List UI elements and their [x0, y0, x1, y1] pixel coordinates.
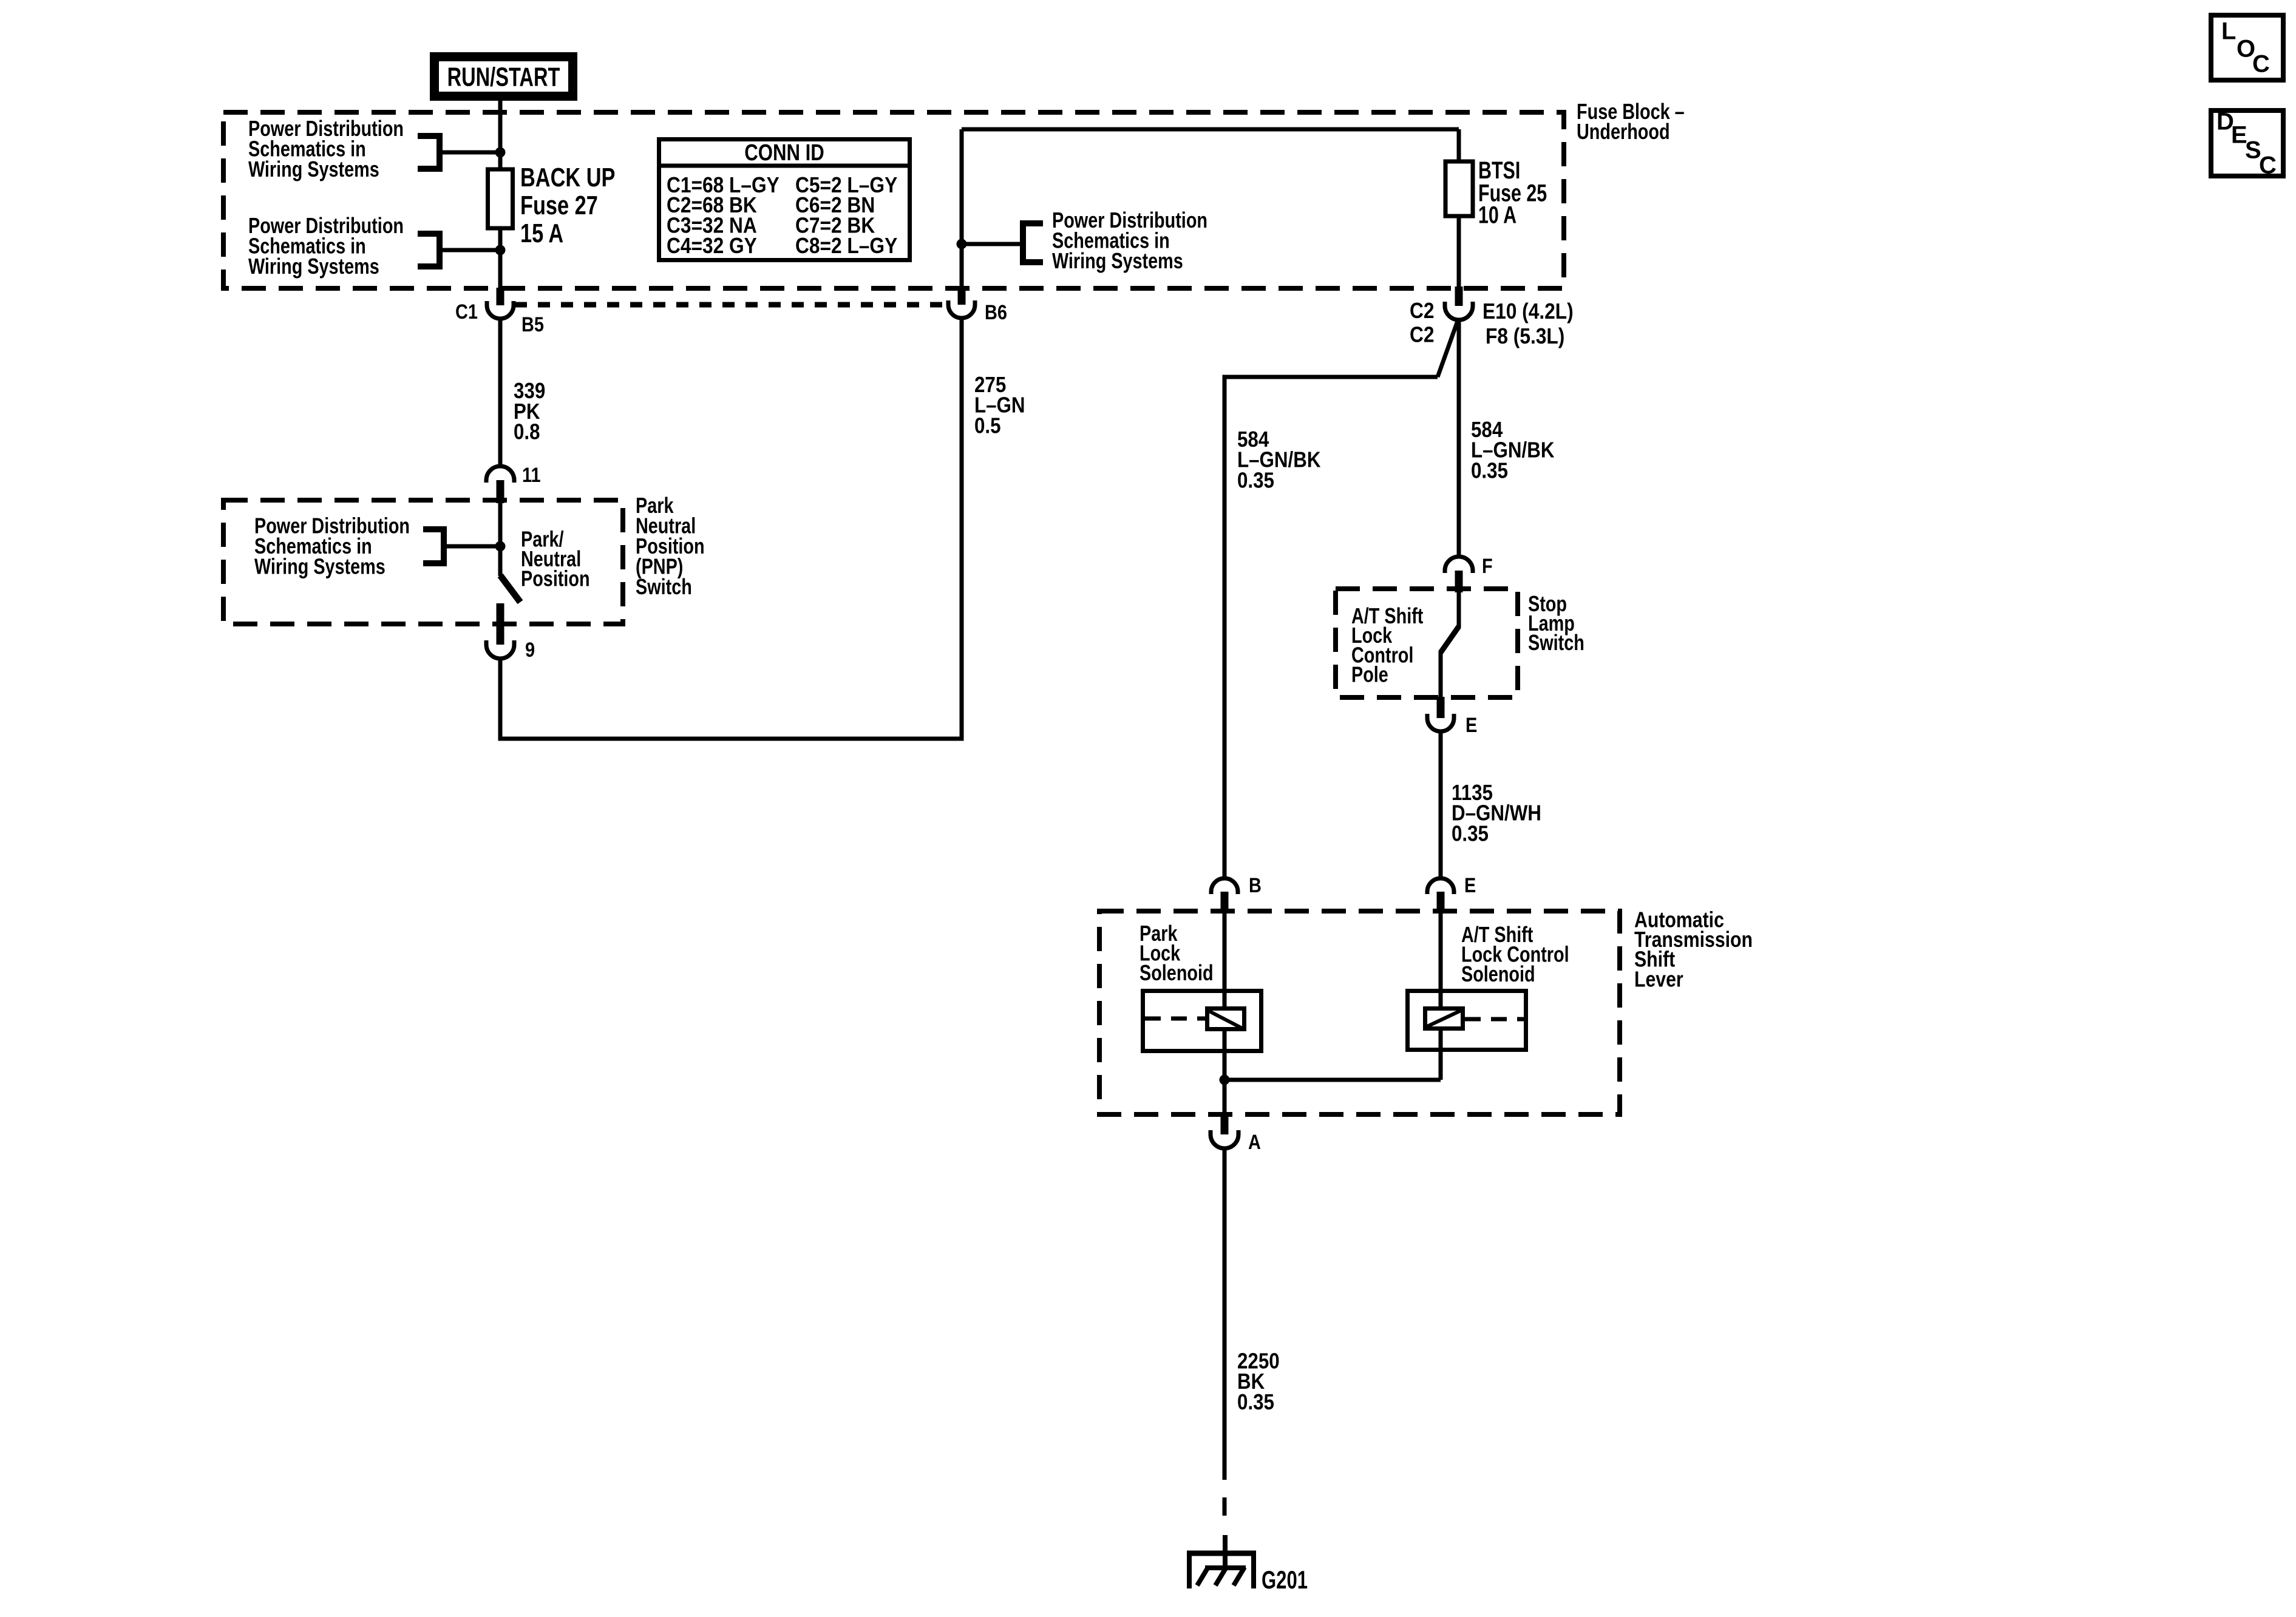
PNP switch dashed boundary — [223, 500, 623, 624]
svg-text:0.35: 0.35 — [1237, 467, 1274, 492]
junction node at bracket 1 — [495, 147, 506, 158]
automatic transmission shift lever dashed boundary — [1099, 911, 1620, 1114]
pin label C1 — [455, 300, 478, 324]
pin label B5 — [521, 313, 544, 336]
wire label 584 L-GN/BK 0.35 right — [1471, 417, 1555, 483]
wire label 2250 BK 0.35 — [1237, 1348, 1280, 1414]
bracket power distribution 2 — [418, 234, 440, 266]
connector C2 pin E10/F8 — [1445, 286, 1473, 320]
stop lamp switch blade — [1441, 592, 1459, 697]
pin label F — [1482, 555, 1493, 578]
PNP switch blade — [500, 575, 520, 602]
pin label F8 (5.3L) — [1486, 324, 1564, 348]
wire bracket PNP to node — [444, 544, 498, 549]
label power distribution ref 3 — [1052, 208, 1207, 273]
label fuse block underhood — [1577, 99, 1685, 144]
svg-text:9: 9 — [525, 639, 535, 662]
wire label 339 PK 0.8 — [514, 378, 545, 444]
wire B to park lock solenoid — [1223, 914, 1227, 1006]
label automatic transmission shift lever — [1634, 907, 1753, 992]
svg-text:L: L — [2221, 18, 2236, 45]
label park/neutral position contacts — [521, 527, 590, 591]
svg-text:C2: C2 — [1410, 322, 1435, 347]
pin label E shift lever — [1464, 874, 1476, 897]
CONN ID table rows — [667, 172, 897, 258]
wire fuse block top horizontal — [962, 127, 1459, 132]
DESC letters — [2216, 109, 2277, 179]
wire ground lead — [1223, 1535, 1228, 1567]
DESC box — [2211, 110, 2283, 176]
svg-text:C: C — [2259, 152, 2277, 179]
svg-text:Wiring Systems: Wiring Systems — [248, 254, 379, 279]
park lock solenoid box — [1143, 991, 1262, 1051]
LOC box — [2211, 15, 2283, 80]
svg-text:Lever: Lever — [1634, 966, 1683, 991]
svg-text:0.35: 0.35 — [1452, 821, 1489, 846]
wire diagonal C2 to 584 branch — [1438, 319, 1458, 377]
park lock solenoid coil — [1207, 1009, 1245, 1029]
stop lamp switch dashed boundary (A/T Shift Lock Control Pole) — [1336, 589, 1518, 697]
label power distribution ref 1 — [248, 116, 404, 181]
svg-text:Solenoid: Solenoid — [1461, 961, 1535, 986]
wire to BTSI fuse — [1457, 129, 1461, 161]
connector pin 9 of PNP switch — [486, 603, 514, 659]
label stop lamp switch — [1528, 591, 1584, 655]
bracket power distribution 3 — [1023, 223, 1043, 262]
connector pin F stop lamp switch — [1445, 557, 1473, 592]
A/T shift lock control solenoid coil — [1425, 1009, 1463, 1029]
wire node to bracket 3 — [964, 242, 1023, 246]
connector C1/B6 dotted line — [515, 302, 943, 308]
connector pin 11 of PNP switch — [486, 466, 514, 503]
svg-text:11: 11 — [522, 464, 541, 487]
junction node at bracket 3 — [957, 239, 967, 249]
label BTSI Fuse 25 10 A — [1478, 157, 1547, 229]
fuse F25 BTSI 10A — [1445, 161, 1473, 216]
junction node PNP — [495, 541, 506, 552]
connector pin E stop lamp switch — [1427, 697, 1454, 731]
label PNP switch name — [636, 493, 705, 599]
svg-text:E10 (4.2L): E10 (4.2L) — [1483, 299, 1574, 324]
A/T shift lock control solenoid box — [1408, 991, 1526, 1050]
bracket power distribution 1 — [418, 136, 440, 169]
svg-text:RUN/START: RUN/START — [447, 62, 560, 92]
wire RUN/START to fuse 27 — [498, 101, 503, 171]
svg-text:B: B — [1249, 874, 1262, 897]
svg-text:0.35: 0.35 — [1237, 1389, 1274, 1414]
pin label A — [1248, 1131, 1261, 1154]
svg-text:Underhood: Underhood — [1577, 119, 1670, 144]
svg-text:0.8: 0.8 — [514, 419, 540, 444]
label power distribution ref 2 — [248, 213, 404, 279]
pin label E stop lamp switch — [1466, 714, 1477, 737]
PNP switch wire upper — [498, 503, 503, 576]
svg-text:0.5: 0.5 — [974, 413, 1001, 438]
svg-text:C2: C2 — [1410, 298, 1435, 323]
wire bracket 1 to node — [443, 151, 498, 155]
wire label 275 L-GN 0.5 — [974, 372, 1025, 438]
fuse F27 BACK UP 15A — [488, 169, 513, 228]
wire 2250 BK — [1223, 1149, 1227, 1480]
svg-text:0.35: 0.35 — [1471, 458, 1508, 483]
wire label 584 L-GN/BK 0.35 left — [1237, 427, 1321, 493]
svg-text:F8 (5.3L): F8 (5.3L) — [1486, 324, 1564, 348]
wire bracket 2 to node — [443, 248, 498, 253]
svg-text:CONN ID: CONN ID — [744, 140, 824, 166]
connector pin E shift lever — [1427, 878, 1454, 914]
svg-text:10 A: 10 A — [1478, 202, 1517, 229]
pin label C2 C2 — [1410, 298, 1435, 347]
svg-text:B5: B5 — [521, 313, 544, 336]
svg-text:C4=32 GY: C4=32 GY — [667, 233, 757, 258]
svg-text:Wiring Systems: Wiring Systems — [248, 157, 379, 181]
svg-text:C1: C1 — [455, 300, 478, 324]
ground G201 — [1187, 1551, 1256, 1588]
label BACK UP Fuse 27 15 A — [520, 163, 615, 248]
wire 9 to B6 return loop — [500, 317, 962, 739]
svg-text:Wiring Systems: Wiring Systems — [254, 554, 385, 579]
connector pin A shift lever — [1211, 1114, 1238, 1148]
wire 584 right branch — [1457, 319, 1461, 557]
pin label 11 — [522, 464, 541, 487]
wire dash to ground — [1223, 1497, 1227, 1516]
svg-text:G201: G201 — [1262, 1565, 1308, 1594]
fuse block dashed boundary (Fuse Block - Underhood) — [223, 112, 1564, 288]
connector C1 pin B5 — [487, 288, 514, 319]
svg-text:Switch: Switch — [1528, 630, 1584, 655]
label power distribution ref PNP — [254, 514, 410, 579]
svg-text:E: E — [1466, 714, 1477, 737]
wire B6 vertical inside fuse block — [960, 129, 964, 288]
svg-text:Fuse 27: Fuse 27 — [520, 191, 598, 220]
label park lock solenoid — [1140, 921, 1214, 985]
pin label 9 — [525, 639, 535, 662]
A/T solenoid dashed lead — [1465, 1017, 1524, 1022]
wire park solenoid down — [1223, 1031, 1227, 1114]
wire BTSI fuse to connector C2 — [1457, 216, 1461, 286]
wire solenoid join horizontal — [1224, 1078, 1441, 1082]
svg-text:A: A — [1248, 1131, 1261, 1154]
wire 1135 D-GN/WH — [1439, 731, 1443, 878]
bracket power distribution PNP — [423, 529, 444, 563]
pin label E10 (4.2L) — [1483, 299, 1574, 324]
label RUN/START — [447, 62, 560, 92]
connector B6 — [948, 288, 975, 318]
svg-text:B6: B6 — [985, 301, 1007, 324]
label A/T shift lock control pole — [1351, 603, 1423, 687]
pin label B6 — [985, 301, 1007, 324]
park lock solenoid dashed lead — [1145, 1017, 1205, 1021]
junction node at bracket 2 — [495, 245, 506, 256]
svg-text:15 A: 15 A — [520, 219, 563, 248]
LOC letters — [2221, 18, 2270, 78]
wire A/T solenoid down — [1439, 1031, 1443, 1080]
svg-text:C: C — [2252, 51, 2270, 78]
CONN ID table — [657, 140, 912, 260]
connector pin B shift lever — [1211, 878, 1238, 914]
svg-text:C8=2 L–GY: C8=2 L–GY — [795, 233, 897, 258]
label A/T shift lock control solenoid — [1461, 922, 1569, 986]
wire E to A/T shift lock solenoid — [1439, 914, 1443, 1006]
switch-position label RUN/START — [435, 57, 573, 97]
svg-text:Solenoid: Solenoid — [1140, 960, 1214, 985]
wire 339 PK — [498, 318, 503, 467]
svg-text:Switch: Switch — [636, 574, 692, 599]
svg-text:Wiring Systems: Wiring Systems — [1052, 248, 1183, 273]
CONN ID table header — [744, 140, 824, 166]
svg-text:BACK UP: BACK UP — [520, 163, 615, 192]
svg-text:E: E — [1464, 874, 1476, 897]
junction node solenoid join — [1220, 1075, 1230, 1085]
svg-text:Pole: Pole — [1351, 662, 1388, 687]
wire label 1135 D-GN/WH 0.35 — [1452, 780, 1541, 846]
ground label G201 — [1262, 1565, 1308, 1594]
svg-text:Position: Position — [521, 566, 590, 591]
svg-text:F: F — [1482, 555, 1493, 578]
wire 584 left branch — [1224, 377, 1438, 878]
pin label B — [1249, 874, 1262, 897]
wire fuse 27 to connector C1 — [498, 228, 503, 288]
